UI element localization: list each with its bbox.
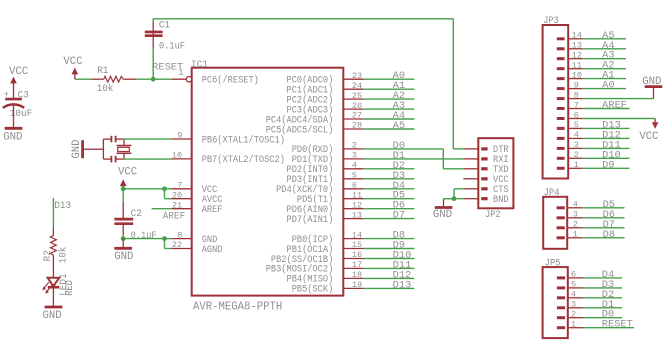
ground symbol (JP3) — [642, 76, 662, 99]
IC left pin stubs and numbers — [172, 131, 192, 251]
svg-text:25: 25 — [352, 91, 362, 101]
svg-text:27: 27 — [352, 111, 362, 121]
svg-text:14: 14 — [352, 230, 362, 240]
svg-text:0.1uF: 0.1uF — [159, 41, 185, 52]
svg-text:AVR-MEGA8-PPTH: AVR-MEGA8-PPTH — [193, 300, 282, 313]
wire RESET node to IC pin1 — [153, 78, 173, 80]
wire RESET node up to C1 — [152, 31, 154, 79]
svg-text:22: 22 — [172, 240, 182, 250]
svg-text:PB5(SCK): PB5(SCK) — [292, 284, 334, 296]
power VCC symbol (C2) — [118, 166, 138, 188]
wires IC right net stubs — [363, 79, 414, 288]
svg-text:JP2: JP2 — [485, 210, 501, 221]
IC right pin stubs and numbers — [343, 71, 363, 290]
net label RESET — [152, 62, 183, 73]
ground symbol (JP2) — [433, 199, 453, 221]
svg-text:AREF: AREF — [163, 211, 185, 222]
svg-text:0.1uF: 0.1uF — [131, 231, 157, 242]
svg-text:6: 6 — [574, 110, 579, 120]
svg-text:4: 4 — [352, 161, 357, 171]
svg-text:BND: BND — [493, 195, 509, 206]
wire to IC pin7 — [165, 188, 173, 190]
wire bend to IC pin20 — [165, 189, 173, 199]
connector JP4 — [543, 188, 583, 249]
svg-text:GND: GND — [3, 131, 22, 143]
wire R1 to RESET node — [136, 78, 153, 80]
svg-text:8: 8 — [574, 90, 579, 100]
svg-text:1: 1 — [178, 68, 183, 78]
svg-text:3: 3 — [352, 151, 357, 161]
svg-text:VCC: VCC — [639, 131, 659, 143]
wire net D1 to JP2 RXI — [363, 158, 463, 160]
svg-text:AREF: AREF — [602, 101, 627, 112]
wire bend to IC pin22 — [165, 239, 173, 249]
svg-text:5: 5 — [571, 280, 576, 290]
svg-text:D9: D9 — [602, 160, 614, 171]
svg-text:4: 4 — [571, 290, 576, 300]
svg-text:PC6(/RESET): PC6(/RESET) — [202, 75, 259, 87]
wire GND node to pin8 node — [123, 238, 164, 240]
resistor R2 — [43, 228, 70, 278]
wire VCC node to pin7 node — [123, 188, 164, 190]
wire JP2 BND pin — [454, 198, 463, 200]
svg-text:JP4: JP4 — [544, 188, 560, 199]
wire AREF stub — [152, 208, 172, 210]
svg-text:R1: R1 — [97, 66, 108, 77]
capacitor C1 — [145, 21, 185, 53]
svg-text:6: 6 — [352, 181, 357, 191]
svg-text:VCC: VCC — [9, 66, 29, 78]
ground symbol (C2) — [114, 239, 133, 263]
node GND junction — [121, 236, 126, 241]
power VCC symbol (JP3, down arrow) — [639, 119, 659, 143]
svg-text:JP5: JP5 — [545, 258, 561, 269]
svg-text:PC5(ADC5/SCL): PC5(ADC5/SCL) — [266, 124, 334, 136]
svg-text:23: 23 — [352, 71, 362, 81]
svg-text:3: 3 — [574, 140, 579, 150]
svg-text:1: 1 — [574, 160, 579, 170]
wires and net labels JP3 (A5-A0, AREF, D13-D9) — [583, 31, 630, 172]
ground symbol (resonator, rotated) — [71, 139, 93, 158]
svg-text:16: 16 — [352, 250, 362, 260]
svg-text:10k: 10k — [58, 247, 70, 264]
svg-text:4: 4 — [573, 200, 578, 210]
wire JP3 pin6 to VCC — [583, 118, 656, 120]
svg-text:13: 13 — [572, 41, 582, 51]
net labels A0-A5 D0-D13 — [393, 71, 412, 291]
svg-text:IC1: IC1 — [191, 60, 208, 71]
wire VCC node down to C2 — [122, 189, 124, 219]
wire XTAL1 to IC pin9 — [124, 138, 172, 140]
svg-text:9: 9 — [177, 131, 182, 141]
connector JP5 — [543, 258, 583, 338]
wire to IC pin8 — [165, 238, 173, 240]
svg-text:GND: GND — [433, 209, 452, 221]
resistor R1 — [91, 66, 136, 95]
svg-text:14: 14 — [572, 31, 582, 41]
wire JP3 pin8 to GND — [583, 98, 654, 100]
IC U1 AVR-MEGA8 body — [191, 60, 343, 313]
svg-text:11: 11 — [572, 61, 582, 71]
svg-text:17: 17 — [352, 260, 362, 270]
wires and net labels JP5 (D4-D0, RESET) — [583, 270, 634, 331]
resonator Q1 — [93, 136, 131, 163]
svg-text:9: 9 — [574, 80, 579, 90]
capacitor C3 (polarized) — [3, 90, 32, 127]
wire VCC to R1 — [75, 78, 91, 80]
connector JP2 — [463, 138, 513, 221]
power VCC symbol (C3) — [9, 66, 29, 98]
svg-text:C1: C1 — [159, 21, 170, 32]
svg-text:6: 6 — [571, 270, 576, 280]
node VCC junction — [121, 186, 126, 191]
node JP2 GND junction — [452, 196, 457, 201]
wire net D13 — [52, 198, 54, 228]
svg-text:JP3: JP3 — [543, 16, 559, 27]
svg-text:4: 4 — [574, 130, 579, 140]
svg-text:3: 3 — [573, 210, 578, 220]
svg-text:AREF: AREF — [202, 205, 223, 216]
svg-text:3: 3 — [571, 300, 576, 310]
svg-text:11: 11 — [352, 190, 362, 200]
svg-text:24: 24 — [352, 81, 362, 91]
svg-text:19: 19 — [352, 280, 362, 290]
node RESET junction — [151, 77, 156, 82]
wire net D0 to JP2 TXD — [363, 149, 463, 169]
svg-text:2: 2 — [574, 150, 579, 160]
IC pin 1 inverted bubble — [172, 68, 192, 82]
svg-text:RED: RED — [65, 280, 76, 296]
svg-text:PB7(XTAL2/TOSC2): PB7(XTAL2/TOSC2) — [202, 154, 285, 166]
svg-text:28: 28 — [352, 121, 362, 131]
wire JP2 CTS to GND — [454, 189, 463, 199]
svg-text:D13: D13 — [393, 280, 412, 291]
svg-text:AGND: AGND — [202, 245, 223, 256]
svg-text:D13: D13 — [54, 201, 71, 212]
wire C2 to GND node — [122, 224, 124, 239]
ground symbol (LED1) — [43, 287, 63, 322]
svg-text:PD7(AIN1): PD7(AIN1) — [287, 214, 334, 226]
svg-text:5: 5 — [574, 120, 579, 130]
svg-text:2: 2 — [573, 220, 578, 230]
svg-text:8: 8 — [177, 230, 182, 240]
svg-text:26: 26 — [352, 101, 362, 111]
svg-text:GND: GND — [43, 310, 62, 322]
net label AREF — [163, 211, 185, 222]
svg-text:12: 12 — [352, 200, 362, 210]
svg-text:10k: 10k — [97, 83, 114, 95]
svg-text:A0: A0 — [602, 81, 614, 92]
node pin8 junction — [162, 236, 167, 241]
wire XTAL2 to IC pin10 — [124, 158, 172, 160]
svg-text:13: 13 — [352, 210, 362, 220]
svg-text:15: 15 — [352, 240, 362, 250]
svg-text:D7: D7 — [393, 211, 405, 222]
svg-text:2: 2 — [352, 141, 357, 151]
svg-text:GND: GND — [114, 251, 133, 263]
LED LED1 — [42, 273, 76, 295]
svg-text:5: 5 — [352, 171, 357, 181]
wire C1 to top rail — [153, 19, 453, 36]
wire top rail down to JP2 DTR — [453, 19, 463, 149]
svg-text:20: 20 — [172, 190, 182, 200]
ground symbol (C3) — [3, 128, 22, 143]
svg-text:10: 10 — [572, 70, 582, 80]
capacitor C2 — [114, 209, 156, 242]
svg-text:A5: A5 — [393, 121, 405, 132]
svg-text:7: 7 — [574, 100, 579, 110]
net label D13 — [54, 201, 71, 212]
svg-text:21: 21 — [172, 200, 182, 210]
svg-text:2: 2 — [571, 310, 576, 320]
connector JP3 — [543, 16, 583, 178]
node pin7 junction — [162, 186, 167, 191]
svg-text:D8: D8 — [603, 230, 615, 241]
svg-text:1: 1 — [573, 230, 578, 240]
svg-text:RESET: RESET — [602, 320, 633, 331]
svg-text:VCC: VCC — [63, 56, 83, 68]
svg-text:VCC: VCC — [118, 166, 138, 178]
svg-text:7: 7 — [177, 181, 182, 191]
IC right pin name labels — [266, 75, 334, 296]
svg-text:12: 12 — [572, 51, 582, 61]
svg-text:18: 18 — [352, 270, 362, 280]
wire GND node left — [444, 198, 455, 200]
svg-text:10: 10 — [172, 151, 182, 161]
svg-text:1: 1 — [571, 320, 576, 330]
IC left pin name labels — [202, 75, 285, 256]
wires and net labels JP4 (D5-D8) — [583, 200, 625, 241]
power VCC symbol (R1) — [63, 56, 83, 79]
